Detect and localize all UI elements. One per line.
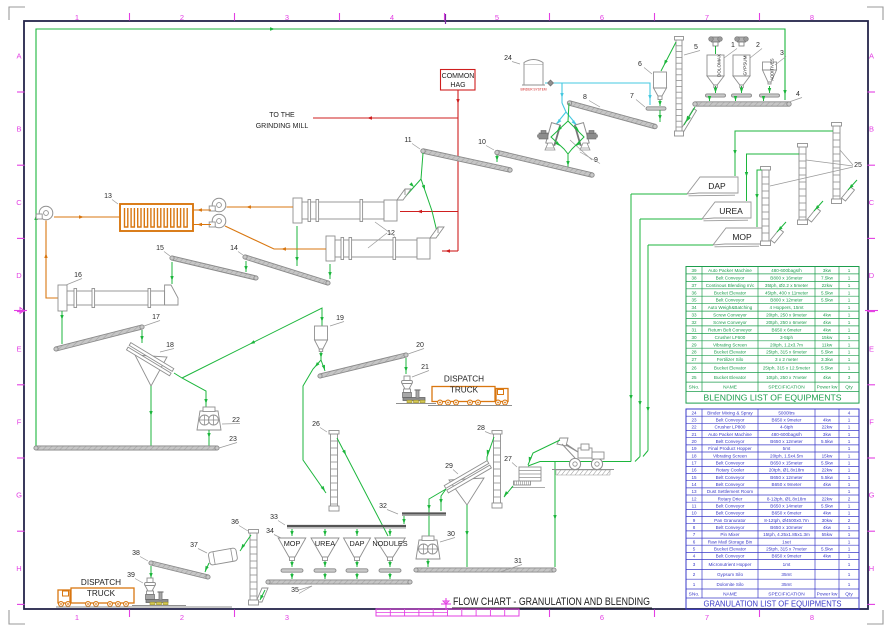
wire elevator5 to hopper6: [661, 42, 676, 71]
svg-text:FLOW CHART - GRANULATION AND B: FLOW CHART - GRANULATION AND BLENDING: [453, 596, 650, 608]
svg-text:1: 1: [848, 554, 851, 559]
svg-text:1: 1: [848, 298, 851, 303]
svg-text:D: D: [869, 271, 875, 280]
label box COMMON HAG: [441, 70, 476, 91]
svg-text:GYPSUM: GYPSUM: [743, 55, 748, 75]
belt conveyor 38: [149, 561, 210, 579]
belt conveyor 11: [421, 149, 512, 172]
svg-text:B650 x 9meter: B650 x 9meter: [772, 554, 802, 559]
bucket elevator 25a: [761, 167, 787, 246]
svg-text:1mt: 1mt: [783, 562, 791, 567]
ruler numbers top and bottom: [75, 13, 814, 622]
scale bar: [376, 609, 519, 616]
svg-text:6: 6: [600, 13, 604, 22]
svg-text:3.3kw: 3.3kw: [821, 357, 834, 362]
svg-text:1: 1: [848, 504, 851, 509]
pin mixer 7 platform: [646, 107, 666, 110]
svg-text:8-12tph, Ø4500x0.7m: 8-12tph, Ø4500x0.7m: [764, 518, 809, 523]
svg-text:B650 x 9meter: B650 x 9meter: [772, 418, 802, 423]
screw feeders under silos: [706, 86, 780, 101]
svg-text:Bucket Elevator: Bucket Elevator: [714, 350, 747, 355]
svg-text:MOP: MOP: [284, 539, 301, 548]
svg-text:7: 7: [630, 93, 634, 100]
wire product to hopper19: [182, 308, 324, 378]
binder tank 24: [520, 60, 546, 92]
svg-text:Dolomite Silo: Dolomite Silo: [716, 582, 744, 587]
svg-text:8: 8: [583, 94, 587, 101]
svg-text:6: 6: [693, 539, 696, 544]
svg-text:Belt Conveyor: Belt Conveyor: [716, 482, 745, 487]
svg-text:32: 32: [691, 320, 697, 325]
svg-text:5000ltrs: 5000ltrs: [778, 410, 795, 415]
svg-text:27: 27: [504, 456, 512, 463]
svg-text:14: 14: [691, 482, 697, 487]
label 12: [368, 222, 395, 248]
belt conveyor 10: [495, 150, 594, 177]
svg-text:36: 36: [231, 519, 239, 526]
svg-text:NODULES: NODULES: [372, 539, 407, 548]
svg-text:31: 31: [691, 327, 697, 332]
svg-text:6: 6: [600, 613, 604, 622]
dispatch truck left: [56, 578, 232, 607]
svg-text:5.5kw: 5.5kw: [821, 547, 834, 552]
svg-text:Belt Conveyor: Belt Conveyor: [716, 475, 745, 480]
label 9: [570, 140, 600, 164]
svg-text:3: 3: [693, 562, 696, 567]
svg-text:Pin Mixer: Pin Mixer: [720, 532, 740, 537]
svg-text:11kw: 11kw: [822, 342, 833, 347]
svg-text:4kw: 4kw: [823, 375, 832, 380]
svg-text:Auto Packer Machine: Auto Packer Machine: [708, 268, 752, 273]
screw conveyor 32: [402, 514, 446, 516]
svg-text:Auto Packer Machine: Auto Packer Machine: [708, 432, 752, 437]
svg-text:SNo.: SNo.: [689, 591, 700, 597]
svg-text:B650 x 6meter: B650 x 6meter: [772, 511, 802, 516]
svg-text:Bucket Elevator: Bucket Elevator: [714, 290, 747, 295]
svg-text:20: 20: [416, 342, 424, 349]
svg-text:1: 1: [848, 350, 851, 355]
svg-text:25: 25: [854, 162, 862, 169]
svg-text:29: 29: [445, 463, 453, 470]
belt conveyor 14: [243, 255, 330, 285]
blower fans right: [209, 198, 226, 228]
svg-text:1: 1: [75, 13, 79, 22]
svg-text:TRUCK: TRUCK: [450, 386, 479, 395]
svg-text:1: 1: [75, 613, 79, 622]
svg-text:G: G: [16, 491, 22, 500]
svg-text:B: B: [16, 125, 21, 134]
svg-text:MOP: MOP: [732, 232, 752, 242]
svg-text:15kw: 15kw: [822, 453, 833, 458]
svg-text:Belt Conveyor: Belt Conveyor: [716, 439, 745, 444]
wire belt20 to packer21: [404, 358, 407, 374]
wire hopper19 splits: [303, 352, 326, 493]
svg-text:1: 1: [848, 475, 851, 480]
svg-text:4kw: 4kw: [823, 327, 832, 332]
svg-text:4kw: 4kw: [823, 525, 832, 530]
svg-text:20tph, 1.2x3.7m: 20tph, 1.2x3.7m: [770, 342, 803, 347]
svg-text:34: 34: [691, 305, 697, 310]
wire belt15 to cooler16: [170, 262, 173, 284]
svg-text:1: 1: [848, 489, 851, 494]
svg-text:1: 1: [848, 532, 851, 537]
svg-text:Vibrating Screen: Vibrating Screen: [713, 342, 747, 347]
wire splitter to rotary driers: [405, 153, 438, 236]
tag UREA: [702, 202, 751, 221]
wire cooler16 down: [60, 311, 63, 344]
label 11: [404, 137, 420, 149]
svg-text:SNo.: SNo.: [689, 385, 700, 391]
svg-text:Bucket Elevator: Bucket Elevator: [714, 547, 747, 552]
wire fan-left orange: [44, 215, 120, 298]
label 14: [230, 245, 243, 255]
label 36: [231, 519, 248, 531]
wire belt14 drop: [244, 261, 247, 272]
label 3: [775, 50, 786, 65]
svg-text:Micronutrient Hopper: Micronutrient Hopper: [709, 562, 752, 567]
centering mark top: [445, 14, 447, 24]
svg-text:3kw: 3kw: [823, 268, 832, 273]
svg-text:34: 34: [266, 528, 274, 535]
svg-text:8: 8: [810, 613, 814, 622]
belt conveyor 20: [318, 353, 408, 378]
wire belt17 to screen18: [140, 330, 143, 343]
svg-text:B650 x 10meter: B650 x 10meter: [770, 525, 803, 530]
svg-text:45tph, 400 x 11meter: 45tph, 400 x 11meter: [765, 290, 809, 295]
svg-text:20: 20: [691, 439, 697, 444]
tag MOP: [713, 228, 762, 247]
svg-text:2: 2: [756, 42, 760, 49]
svg-text:4kw: 4kw: [823, 320, 832, 325]
svg-text:25: 25: [691, 375, 697, 380]
label 37: [190, 542, 207, 553]
svg-text:31: 31: [514, 558, 522, 565]
svg-text:5.5kw: 5.5kw: [821, 350, 834, 355]
wire elevator26 to nodules: [337, 438, 388, 536]
wire granulator junctions: [551, 103, 584, 168]
svg-text:5.5kw: 5.5kw: [821, 475, 834, 480]
label 13: [104, 193, 118, 204]
svg-text:26: 26: [691, 366, 697, 371]
svg-text:1: 1: [848, 268, 851, 273]
svg-text:22kw: 22kw: [822, 425, 833, 430]
svg-text:25tph, 315 x 12.5meter: 25tph, 315 x 12.5meter: [763, 366, 811, 371]
svg-text:Belt Conveyor: Belt Conveyor: [716, 504, 745, 509]
drawing title: [452, 596, 652, 608]
svg-text:39: 39: [127, 572, 135, 579]
svg-text:GRANULATION LIST OF EQUIPMENTS: GRANULATION LIST OF EQUIPMENTS: [704, 599, 842, 609]
svg-text:24: 24: [504, 55, 512, 62]
label 32: [379, 503, 398, 514]
svg-text:Belt Conveyor: Belt Conveyor: [716, 525, 745, 530]
label 1: [724, 42, 737, 58]
svg-text:38: 38: [132, 550, 140, 557]
label 16: [66, 272, 82, 285]
svg-text:1: 1: [731, 42, 735, 49]
svg-text:Power kw: Power kw: [817, 385, 838, 391]
svg-text:5.5kw: 5.5kw: [821, 439, 834, 444]
svg-text:15kw: 15kw: [822, 335, 833, 340]
svg-text:5: 5: [694, 44, 698, 51]
svg-text:Bucket Elevator: Bucket Elevator: [714, 375, 747, 380]
svg-text:35mt: 35mt: [781, 572, 792, 577]
svg-text:3: 3: [848, 375, 851, 380]
svg-text:Belt Conveyor: Belt Conveyor: [716, 275, 745, 280]
svg-text:35: 35: [691, 298, 697, 303]
wire screen18 fines: [149, 386, 152, 446]
svg-text:20tph, 1.5x4.5m: 20tph, 1.5x4.5m: [770, 453, 803, 458]
svg-text:32: 32: [379, 503, 387, 510]
svg-text:21: 21: [691, 432, 697, 437]
svg-text:4kw: 4kw: [823, 313, 832, 318]
svg-text:TRUCK: TRUCK: [87, 589, 116, 598]
svg-text:A: A: [16, 52, 21, 61]
svg-text:1: 1: [848, 453, 851, 458]
final product hopper 19: [315, 326, 328, 352]
svg-text:2: 2: [848, 496, 851, 501]
svg-text:TO THE: TO THE: [269, 112, 295, 119]
wire elevators25 to tags: [733, 131, 833, 227]
svg-text:30kw: 30kw: [822, 518, 833, 523]
svg-text:D: D: [16, 271, 22, 280]
svg-text:HAG: HAG: [450, 82, 465, 89]
wire crusher30 down: [426, 559, 429, 567]
svg-text:1: 1: [848, 320, 851, 325]
svg-text:10: 10: [691, 511, 697, 516]
label 35: [291, 586, 312, 594]
svg-text:Qty: Qty: [845, 385, 853, 391]
svg-text:4 Hoppers, 15mt: 4 Hoppers, 15mt: [770, 305, 805, 310]
svg-text:3: 3: [780, 50, 784, 57]
wire recycle loop left-top: [34, 27, 786, 446]
label 2: [750, 42, 762, 58]
svg-text:1: 1: [848, 313, 851, 318]
svg-text:480-600bags/h: 480-600bags/h: [771, 268, 802, 273]
svg-text:DOLOMAX: DOLOMAX: [717, 54, 722, 77]
svg-text:DISPATCH: DISPATCH: [81, 578, 121, 587]
svg-text:Binder Mixing & Spray: Binder Mixing & Spray: [707, 410, 753, 415]
wire belt10 to belt11: [495, 155, 498, 162]
svg-text:480-600bags/h: 480-600bags/h: [771, 432, 802, 437]
centering mark left: [14, 308, 27, 314]
svg-text:9: 9: [693, 518, 696, 523]
svg-text:35mt: 35mt: [781, 582, 792, 587]
svg-text:B650 x 12meter: B650 x 12meter: [770, 475, 803, 480]
wire mixer37 to belt38: [205, 563, 209, 572]
svg-text:1set: 1set: [782, 539, 791, 544]
label 22: [222, 417, 240, 424]
wire hot-gas red lines: [313, 90, 460, 253]
svg-text:4-6tph: 4-6tph: [780, 425, 793, 430]
svg-text:Screw Conveyor: Screw Conveyor: [713, 320, 747, 325]
svg-text:3: 3: [285, 13, 289, 22]
label 4: [789, 91, 802, 102]
svg-text:Auto Weigh&Batching: Auto Weigh&Batching: [708, 305, 753, 310]
svg-text:13: 13: [104, 193, 112, 200]
dolomite silo 1: [707, 37, 724, 88]
wire fans-right orange: [193, 205, 326, 250]
label 34: [266, 528, 283, 539]
svg-text:Power kw: Power kw: [817, 591, 838, 597]
svg-text:28: 28: [477, 425, 485, 432]
svg-text:C: C: [16, 198, 22, 207]
svg-text:5: 5: [693, 547, 696, 552]
svg-text:5.5kw: 5.5kw: [821, 504, 834, 509]
svg-text:Crusher LF600: Crusher LF600: [715, 335, 746, 340]
svg-text:16: 16: [74, 272, 82, 279]
svg-text:UREA: UREA: [719, 206, 743, 216]
svg-text:21: 21: [421, 364, 429, 371]
label 23: [219, 436, 237, 448]
bucket elevator 36: [249, 530, 259, 606]
label 31: [500, 558, 522, 572]
svg-text:14: 14: [230, 245, 238, 252]
svg-text:F: F: [869, 418, 874, 427]
svg-text:19: 19: [691, 446, 697, 451]
svg-text:1: 1: [848, 572, 851, 577]
svg-text:H: H: [869, 564, 874, 573]
svg-text:Gypsum Silo: Gypsum Silo: [717, 572, 743, 577]
auto packer machine 21: [396, 376, 436, 404]
gypsum silo 2: [733, 37, 750, 88]
bucket elevator 26: [329, 431, 339, 512]
svg-text:5mt: 5mt: [783, 446, 791, 451]
svg-text:1: 1: [848, 539, 851, 544]
svg-text:23: 23: [691, 418, 697, 423]
border corner mark top-left: [9, 7, 25, 20]
wire screen18 oversize: [174, 373, 208, 407]
vibrating screen 29: [444, 461, 491, 505]
svg-text:B650 x 9meter: B650 x 9meter: [772, 482, 802, 487]
wire hopper6 down: [658, 100, 661, 106]
svg-text:Screw Conveyor: Screw Conveyor: [713, 313, 747, 318]
tag DAP: [687, 177, 738, 196]
svg-text:38: 38: [691, 275, 697, 280]
svg-text:8: 8: [810, 13, 814, 22]
label 26: [312, 421, 327, 432]
svg-text:26: 26: [312, 421, 320, 428]
label 38: [132, 550, 148, 561]
svg-text:1: 1: [848, 275, 851, 280]
svg-text:5.5kw: 5.5kw: [821, 298, 834, 303]
svg-text:22: 22: [691, 425, 697, 430]
svg-text:2: 2: [693, 572, 696, 577]
svg-text:13: 13: [691, 489, 697, 494]
svg-text:1: 1: [848, 511, 851, 516]
bucket elevator 25b: [798, 144, 824, 225]
svg-text:4: 4: [390, 13, 394, 22]
belt conveyor 8: [567, 101, 657, 129]
belt conveyor 23: [34, 446, 219, 450]
blower fan left: [36, 206, 53, 220]
svg-text:2: 2: [848, 518, 851, 523]
svg-text:Raw Matl Storage Bin: Raw Matl Storage Bin: [708, 539, 753, 544]
belt conveyor 31: [414, 568, 556, 572]
svg-text:1: 1: [848, 327, 851, 332]
wire mixer7 to belt8: [658, 110, 661, 122]
svg-text:C: C: [869, 198, 875, 207]
svg-text:E: E: [16, 344, 21, 353]
svg-text:1: 1: [848, 342, 851, 347]
wire elevator28 to screen29: [487, 437, 494, 461]
svg-text:Crusher LP800: Crusher LP800: [715, 425, 746, 430]
label 8: [583, 94, 600, 107]
svg-text:4: 4: [796, 91, 800, 98]
svg-text:35tph, Ø2.2 x 5meter: 35tph, Ø2.2 x 5meter: [765, 283, 809, 288]
svg-text:ADDITIVES: ADDITIVES: [770, 58, 775, 80]
svg-text:4: 4: [848, 410, 851, 415]
svg-text:4kw: 4kw: [823, 511, 832, 516]
svg-text:3 x 2 meter: 3 x 2 meter: [775, 357, 798, 362]
label 10: [478, 139, 494, 150]
svg-text:B650 x 14meter: B650 x 14meter: [770, 504, 803, 509]
svg-text:20tph, 250 x 9meter: 20tph, 250 x 9meter: [766, 313, 807, 318]
svg-text:B650 x 15meter: B650 x 15meter: [770, 461, 803, 466]
wire binder cyan lines: [545, 80, 652, 129]
svg-text:Belt Conveyor: Belt Conveyor: [716, 461, 745, 466]
border corner mark bottom-right: [867, 610, 883, 624]
svg-text:Return Belt Conveyor: Return Belt Conveyor: [708, 327, 752, 332]
label 27: [504, 456, 517, 467]
svg-text:17: 17: [691, 461, 697, 466]
svg-text:36: 36: [691, 290, 697, 295]
svg-text:B800 x 16meter: B800 x 16meter: [770, 275, 803, 280]
label 39: [127, 572, 143, 583]
svg-text:39: 39: [691, 268, 697, 273]
svg-text:E: E: [869, 344, 874, 353]
svg-text:5.5kw: 5.5kw: [821, 461, 834, 466]
wire elevator36 to mixer37: [240, 535, 251, 551]
svg-text:18: 18: [691, 453, 697, 458]
crusher 30: [416, 536, 440, 559]
label TO THE GRINDING MILL: [256, 112, 309, 130]
svg-text:A: A: [869, 52, 874, 61]
svg-text:24: 24: [691, 410, 697, 415]
svg-text:22kw: 22kw: [822, 496, 833, 501]
rotary cooler 16: [58, 285, 178, 311]
svg-text:1: 1: [848, 366, 851, 371]
svg-text:DAP: DAP: [708, 181, 726, 191]
wire raw material manifold: [528, 194, 650, 567]
svg-text:F: F: [17, 418, 22, 427]
svg-text:37: 37: [691, 283, 697, 288]
svg-text:B800 x 12meter: B800 x 12meter: [770, 298, 803, 303]
svg-text:NAME: NAME: [723, 385, 737, 391]
label 30: [440, 531, 455, 542]
svg-text:Continous Blending m/c: Continous Blending m/c: [706, 283, 755, 288]
svg-text:5: 5: [495, 13, 499, 22]
weigh hoppers 34 MOP UREA DAP NODULES: [278, 529, 408, 579]
svg-text:4kw: 4kw: [823, 554, 832, 559]
label 18: [160, 342, 174, 352]
label 33: [270, 514, 285, 525]
svg-text:2: 2: [180, 613, 184, 622]
svg-text:2: 2: [180, 13, 184, 22]
dispatch truck right: [428, 375, 512, 406]
svg-text:10tph, 250 x 7meter: 10tph, 250 x 7meter: [766, 375, 807, 380]
svg-text:20tph, 250 x 6meter: 20tph, 250 x 6meter: [766, 320, 807, 325]
granulation list of equipments table: [686, 409, 859, 609]
belt conveyor 17: [54, 325, 144, 351]
svg-text:1: 1: [848, 446, 851, 451]
svg-text:29: 29: [691, 342, 697, 347]
wire screen29 to crusher and screw: [427, 489, 446, 537]
label 28: [477, 425, 491, 434]
svg-text:Final Product Hopper: Final Product Hopper: [708, 446, 752, 451]
svg-text:1: 1: [848, 461, 851, 466]
svg-text:22: 22: [232, 417, 240, 424]
svg-text:6: 6: [638, 61, 642, 68]
